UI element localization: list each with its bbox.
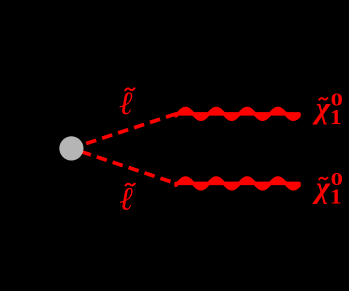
wire: bottom neutralino wavy+straight propagator xyxy=(176,178,299,189)
wire: top neutralino wavy+straight propagator xyxy=(176,108,299,119)
label: bottom slepton ell-tilde xyxy=(120,181,136,217)
wire: bottom slepton dashed propagator xyxy=(71,148,176,183)
node: interaction blob vertex xyxy=(59,136,83,160)
label: bottom neutralino chi-tilde-1-0 xyxy=(312,169,343,208)
svg-text:1: 1 xyxy=(330,105,342,129)
svg-text:ℓ: ℓ xyxy=(119,86,133,122)
label: top neutralino chi-tilde-1-0 xyxy=(312,90,343,129)
wire: top slepton dashed propagator xyxy=(71,114,176,149)
label: top slepton ell-tilde xyxy=(119,86,135,122)
